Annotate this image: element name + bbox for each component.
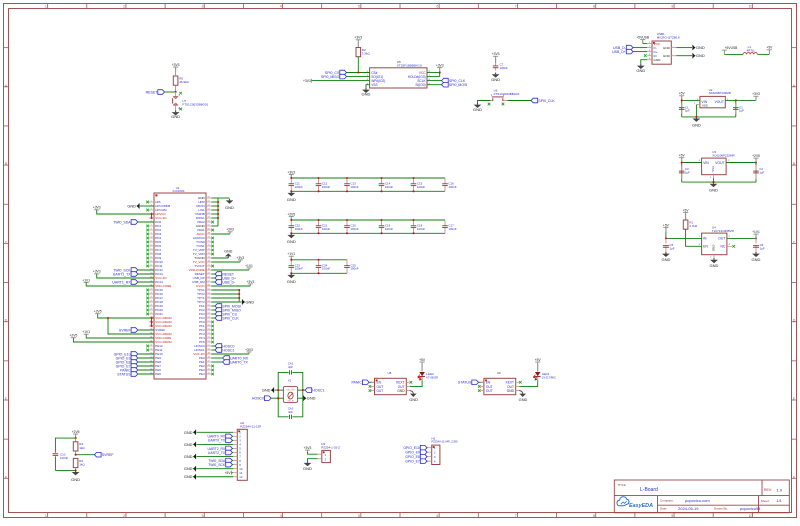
net label HOSC0 (U1) bbox=[211, 344, 234, 349]
+3V3 power (R2 pull-up) bbox=[354, 36, 362, 48]
svg-text:Drawn By:: Drawn By: bbox=[714, 507, 728, 511]
svg-text:GND: GND bbox=[287, 197, 296, 202]
svg-text:10: 10 bbox=[749, 5, 753, 9]
svg-text:28: 28 bbox=[150, 309, 152, 311]
capacitor bank C11-C16 (+3V3) bbox=[287, 170, 457, 202]
svg-text:67: 67 bbox=[208, 281, 210, 283]
svg-text:25: 25 bbox=[150, 297, 152, 299]
svg-text:SPI0_CLK: SPI0_CLK bbox=[222, 316, 239, 320]
svg-text:+3V3: +3V3 bbox=[93, 270, 101, 274]
+3V3 power (H3) bbox=[304, 446, 318, 454]
svg-text:52: 52 bbox=[208, 341, 210, 343]
svg-text:KT-0603R: KT-0603R bbox=[426, 375, 438, 379]
+2V5 power (U1 VCC-DRAM) bbox=[94, 310, 154, 334]
svg-text:1.0: 1.0 bbox=[777, 487, 783, 492]
svg-text:X1: X1 bbox=[288, 379, 292, 383]
svg-text:+1V1: +1V1 bbox=[82, 278, 90, 282]
svg-text:SVREF: SVREF bbox=[102, 453, 114, 457]
capacitor bank C22-C17 (+2V5) bbox=[287, 212, 457, 244]
svg-text:+5V: +5V bbox=[225, 471, 232, 475]
net label USB_D+ bbox=[612, 49, 647, 54]
svg-text:62: 62 bbox=[208, 301, 210, 303]
svg-text:1µF: 1µF bbox=[760, 247, 765, 251]
svg-text:3: 3 bbox=[201, 514, 203, 518]
+3V3 power (U1 HPVCC) bbox=[93, 206, 154, 218]
svg-text:2024-05-19: 2024-05-19 bbox=[678, 506, 699, 511]
wire LED to OUT bbox=[519, 377, 538, 387]
IC U5 XT25F16BB6KGU bbox=[367, 60, 431, 88]
svg-text:GND: GND bbox=[692, 122, 701, 127]
wire VSS to ground bbox=[366, 85, 370, 88]
net label SPI0_MOSI (U1) bbox=[211, 304, 241, 309]
svg-text:U8: U8 bbox=[388, 371, 392, 375]
wire + ground flag (H2 pin 7) bbox=[184, 454, 233, 459]
+5V power (LED1) bbox=[535, 358, 542, 372]
+5V power (R1) bbox=[683, 208, 690, 220]
net label HOSC1 (U1) bbox=[211, 348, 234, 353]
+5VUSB power (USB1) bbox=[636, 36, 650, 44]
svg-text:GND: GND bbox=[654, 58, 662, 62]
svg-text:+3V3: +3V3 bbox=[354, 36, 362, 40]
capacitor C3 bbox=[679, 163, 690, 183]
net label TWI0_SCK bbox=[113, 268, 154, 273]
inductor L1 bbox=[743, 45, 757, 54]
ground (C7) bbox=[491, 73, 500, 82]
ground (divider) bbox=[71, 470, 80, 482]
svg-text:81: 81 bbox=[208, 225, 210, 227]
svg-text:+1V1: +1V1 bbox=[245, 264, 253, 268]
IC U4 TLV71310DBVR bbox=[699, 225, 735, 259]
svg-text:7: 7 bbox=[515, 5, 517, 9]
svg-text:+1V1: +1V1 bbox=[752, 230, 760, 234]
net label UART1_TX bbox=[113, 272, 154, 277]
IC U3 XC6206P252MR bbox=[699, 150, 736, 179]
svg-text:GND: GND bbox=[262, 388, 271, 393]
svg-text:SVREF: SVREF bbox=[119, 328, 131, 332]
svg-text:GPIO_E9: GPIO_E9 bbox=[405, 451, 420, 455]
wire TP bus (U1) bbox=[211, 290, 241, 302]
net label TWI0_SCK (H2) bbox=[208, 462, 233, 467]
svg-text:NC: NC bbox=[720, 245, 725, 249]
svg-text:4pF: 4pF bbox=[288, 410, 293, 414]
net label SPI0_CS (U1) bbox=[211, 312, 237, 317]
resistor R5 bbox=[173, 76, 189, 92]
svg-text:79: 79 bbox=[208, 233, 210, 235]
ground (U2) bbox=[692, 117, 701, 127]
svg-text:H1: H1 bbox=[432, 436, 436, 440]
svg-text:GND: GND bbox=[712, 245, 716, 251]
capacitor bank C23-C25 (+1V1) bbox=[287, 252, 359, 284]
wire +5V to VIN bbox=[682, 99, 700, 101]
svg-text:GND: GND bbox=[225, 205, 234, 210]
svg-text:XC6206P252MR: XC6206P252MR bbox=[712, 153, 735, 157]
svg-text:GPIO_E10: GPIO_E10 bbox=[403, 446, 420, 450]
U1 left pins bbox=[146, 200, 172, 376]
net label SPI0_MOSI bbox=[427, 82, 467, 87]
svg-text:FTS1C0033BBG01: FTS1C0033BBG01 bbox=[494, 92, 520, 96]
svg-text:VSS: VSS bbox=[371, 83, 377, 87]
svg-text:48: 48 bbox=[208, 357, 210, 359]
wire +5V to VIN bbox=[682, 162, 702, 164]
title block bbox=[614, 480, 789, 513]
svg-text:IN: IN bbox=[703, 237, 707, 241]
svg-text:TWI0_SCK: TWI0_SCK bbox=[208, 463, 226, 467]
svg-text:REV:: REV: bbox=[764, 488, 772, 492]
svg-text:GND: GND bbox=[246, 300, 255, 305]
svg-text:SPI0_MOSI: SPI0_MOSI bbox=[449, 83, 468, 87]
svg-text:GND: GND bbox=[397, 389, 405, 393]
wire L1 to +5V bbox=[758, 53, 770, 55]
net label UART1_RX bbox=[112, 280, 154, 285]
svg-text:+3V3: +3V3 bbox=[492, 52, 500, 56]
svg-text:HOSC1: HOSC1 bbox=[312, 388, 324, 392]
ground flag (U1 TP bus) bbox=[242, 299, 254, 304]
svg-text:EasyEDA: EasyEDA bbox=[629, 503, 653, 509]
IC U8 LED driver bbox=[371, 371, 410, 395]
svg-text:GND: GND bbox=[709, 188, 718, 193]
connector H3 PZ254-1-02-Z-8.5 bbox=[318, 442, 341, 462]
svg-text:1: 1 bbox=[45, 514, 47, 518]
svg-text:78: 78 bbox=[208, 237, 210, 239]
svg-text:U9: U9 bbox=[497, 371, 501, 375]
svg-text:GND: GND bbox=[184, 442, 193, 447]
svg-text:+5V: +5V bbox=[419, 358, 426, 362]
svg-text:SPI0_MISO: SPI0_MISO bbox=[321, 75, 340, 79]
svg-text:+3V3: +3V3 bbox=[304, 446, 312, 450]
svg-text:51: 51 bbox=[208, 345, 210, 347]
svg-text:LED2: LED2 bbox=[426, 372, 434, 376]
crystal X1 bbox=[283, 379, 297, 403]
svg-text:OUT: OUT bbox=[486, 389, 493, 393]
svg-text:7: 7 bbox=[515, 514, 517, 518]
connector H1 PZ254V-11-04P bbox=[428, 436, 458, 464]
net label RESET (U1) bbox=[211, 272, 235, 277]
wire VOUT to +3V3 bbox=[725, 99, 756, 101]
svg-text:GND: GND bbox=[507, 389, 515, 393]
svg-text:SK6206P332MR: SK6206P332MR bbox=[709, 91, 732, 95]
svg-text:100nF: 100nF bbox=[322, 227, 330, 231]
svg-text:1µF: 1µF bbox=[670, 247, 675, 251]
svg-text:7: 7 bbox=[151, 225, 152, 227]
svg-text:100nF: 100nF bbox=[60, 456, 68, 460]
capacitor C6 bbox=[753, 238, 765, 252]
+3V3 power (reset pull-up) bbox=[172, 63, 180, 71]
svg-text:+3V3: +3V3 bbox=[303, 79, 311, 83]
svg-text:6: 6 bbox=[436, 514, 438, 518]
svg-text:PANIC: PANIC bbox=[351, 381, 362, 385]
ground up (U1 TVGND) bbox=[211, 249, 232, 258]
svg-text:VSS: VSS bbox=[711, 166, 715, 172]
svg-text:77: 77 bbox=[208, 241, 210, 243]
svg-text:PZ254V-11-04P_C289: PZ254V-11-04P_C289 bbox=[432, 440, 458, 444]
+2V5 power (U1 VCC-DRAM 2) bbox=[70, 334, 154, 342]
svg-text:UART1_RX: UART1_RX bbox=[112, 280, 131, 284]
svg-text:3: 3 bbox=[201, 5, 203, 9]
net label USB_D- bbox=[613, 45, 647, 50]
+3V3 power (C7) bbox=[492, 52, 500, 63]
+5V power (U3) bbox=[679, 154, 686, 163]
ground flag shield 2 bbox=[693, 53, 705, 58]
capacitor C1 bbox=[679, 100, 690, 117]
+1V1 power (U1 VDD-CORE right) bbox=[211, 264, 253, 270]
svg-text:+2V5: +2V5 bbox=[287, 212, 295, 216]
svg-text:+3V3: +3V3 bbox=[236, 256, 244, 260]
svg-text:76: 76 bbox=[208, 245, 210, 247]
ground flag shield 1 bbox=[693, 45, 705, 50]
svg-text:8: 8 bbox=[151, 229, 152, 231]
svg-text:100nF: 100nF bbox=[322, 267, 330, 271]
svg-text:100nF: 100nF bbox=[500, 66, 508, 70]
ground flag (crystal left) bbox=[262, 388, 284, 393]
svg-text:100nF: 100nF bbox=[385, 185, 393, 189]
svg-text:PE5: PE5 bbox=[155, 372, 161, 376]
svg-text:74: 74 bbox=[208, 253, 210, 255]
svg-text:14: 14 bbox=[150, 253, 152, 255]
wire VOUT to +2V5 bbox=[726, 162, 756, 164]
svg-text:4R7Ω: 4R7Ω bbox=[747, 48, 756, 52]
capacitor C4 bbox=[753, 163, 764, 183]
svg-text:29: 29 bbox=[150, 313, 152, 315]
svg-text:3.3kΩ: 3.3kΩ bbox=[362, 52, 371, 56]
svg-text:GND: GND bbox=[287, 239, 296, 244]
svg-text:61: 61 bbox=[208, 305, 210, 307]
svg-text:15: 15 bbox=[150, 257, 152, 259]
svg-text:GND: GND bbox=[184, 466, 193, 471]
power label +5V (H2 pin 11) bbox=[225, 471, 233, 475]
svg-text:+5V: +5V bbox=[663, 223, 670, 227]
svg-text:71: 71 bbox=[208, 265, 210, 267]
svg-text:GPIO_E8: GPIO_E8 bbox=[405, 455, 420, 459]
svg-text:GND: GND bbox=[661, 257, 670, 262]
svg-text:11: 11 bbox=[150, 241, 152, 243]
svg-text:19-217/R6C: 19-217/R6C bbox=[542, 375, 556, 379]
svg-text:85: 85 bbox=[208, 209, 210, 211]
wire to L1 bbox=[724, 53, 743, 55]
svg-text:GND: GND bbox=[710, 263, 719, 268]
svg-text:GND: GND bbox=[519, 397, 528, 402]
svg-text:+2V5: +2V5 bbox=[94, 310, 102, 314]
net label HOSC1 (crystal) bbox=[298, 388, 325, 393]
svg-text:VSS: VSS bbox=[702, 104, 708, 108]
no-connect marks bbox=[478, 385, 481, 388]
svg-text:4: 4 bbox=[280, 514, 282, 518]
net label TWI0_SDA bbox=[113, 220, 154, 225]
net label SPI0_CS bbox=[325, 70, 370, 75]
wire +5VUSB to VCC bbox=[643, 43, 648, 45]
svg-text:73: 73 bbox=[208, 257, 210, 259]
svg-text:+5V: +5V bbox=[683, 208, 690, 212]
svg-text:13: 13 bbox=[150, 249, 152, 251]
svg-text:Sheet:: Sheet: bbox=[761, 499, 770, 503]
svg-text:100nF: 100nF bbox=[350, 267, 358, 271]
+3V3 power (U2 out) bbox=[752, 92, 760, 100]
svg-text:82: 82 bbox=[208, 221, 210, 223]
no-connect NC bbox=[732, 245, 735, 248]
svg-text:1µF: 1µF bbox=[739, 109, 744, 113]
svg-text:100nF: 100nF bbox=[295, 227, 303, 231]
svg-text:PE4: PE4 bbox=[199, 372, 205, 376]
net label GPIO_E10 (H1) bbox=[403, 445, 427, 450]
connector USB1 MICRO-QTZ86.6 bbox=[647, 32, 680, 64]
svg-text:45.9kΩ: 45.9kΩ bbox=[179, 80, 189, 84]
svg-text:D: D bbox=[793, 319, 796, 323]
wire + ground flag (H2 pin 1) bbox=[184, 430, 233, 435]
svg-text:+3V3: +3V3 bbox=[752, 92, 760, 96]
svg-text:GND: GND bbox=[307, 396, 316, 401]
svg-text:9: 9 bbox=[671, 514, 673, 518]
svg-text:GND: GND bbox=[409, 397, 418, 402]
wire + ground flag (H2 pin 4) bbox=[184, 442, 233, 447]
net label UART0_RX (U1) bbox=[211, 356, 249, 361]
svg-text:UART2_TX: UART2_TX bbox=[208, 451, 226, 455]
ground (C6) bbox=[752, 252, 761, 262]
svg-text:GND: GND bbox=[696, 45, 705, 50]
+3V3 power (U1 UVCC) bbox=[211, 280, 254, 286]
net label GPIO_E8 (U1) bbox=[116, 360, 154, 365]
svg-text:GND: GND bbox=[752, 257, 761, 262]
+3V3 power (U5 VCC) bbox=[436, 63, 444, 72]
net label GPIO_E9 (H1) bbox=[405, 450, 427, 455]
wire +5V to IN bbox=[666, 232, 702, 238]
node RESET junction bbox=[175, 91, 177, 93]
net label PANIC bbox=[351, 380, 374, 385]
svg-text:LED1: LED1 bbox=[542, 372, 550, 376]
svg-text:46: 46 bbox=[208, 365, 210, 367]
net label PANIC (U1) bbox=[120, 368, 154, 373]
svg-text:UART1_TX: UART1_TX bbox=[113, 272, 131, 276]
svg-text:SPI0_CLK: SPI0_CLK bbox=[538, 99, 555, 103]
resistor R3 bbox=[73, 438, 85, 455]
svg-text:Date:: Date: bbox=[660, 507, 667, 511]
svg-text:VOUT: VOUT bbox=[715, 161, 724, 165]
svg-text:GND: GND bbox=[663, 46, 671, 50]
svg-text:GND: GND bbox=[184, 454, 193, 459]
svg-text:5: 5 bbox=[358, 514, 360, 518]
wire R2 to CS node bbox=[357, 57, 359, 73]
svg-text:STATUS: STATUS bbox=[458, 381, 472, 385]
svg-text:L-Board: L-Board bbox=[640, 487, 658, 493]
svg-text:+1V1: +1V1 bbox=[287, 252, 295, 256]
net label GPIO_E9 (U1) bbox=[116, 356, 154, 361]
svg-text:100nF: 100nF bbox=[448, 185, 456, 189]
net label SPI0_CLK (U6) bbox=[508, 98, 556, 103]
+3V3 power (U1 VCC-3O) bbox=[93, 270, 154, 278]
wire + ground (H3 pin 2) bbox=[303, 459, 317, 471]
svg-text:100nF: 100nF bbox=[417, 185, 425, 189]
+1V1 power (U4 out) bbox=[752, 230, 760, 238]
svg-text:50: 50 bbox=[208, 349, 210, 351]
+5V power (L1 out) bbox=[766, 46, 773, 55]
+3V3 power (U1 TV_VCC) bbox=[211, 256, 244, 262]
svg-text:83: 83 bbox=[208, 217, 210, 219]
svg-text:+2V5: +2V5 bbox=[752, 154, 760, 158]
svg-text:popovicu.com: popovicu.com bbox=[685, 498, 710, 503]
svg-text:9: 9 bbox=[151, 233, 152, 235]
svg-text:GND: GND bbox=[636, 68, 645, 73]
svg-text:OSC_OUT: OSC_OUT bbox=[286, 389, 294, 391]
svg-text:C: C bbox=[5, 240, 8, 244]
svg-text:58: 58 bbox=[208, 317, 210, 319]
svg-text:100nF: 100nF bbox=[385, 227, 393, 231]
svg-text:59: 59 bbox=[208, 313, 210, 315]
svg-text:UART0_TX: UART0_TX bbox=[208, 439, 226, 443]
svg-text:USB_D+: USB_D+ bbox=[612, 50, 626, 54]
svg-text:GND: GND bbox=[663, 54, 671, 58]
net label USB_D- (U1) bbox=[211, 280, 236, 285]
svg-text:45: 45 bbox=[208, 369, 210, 371]
svg-text:55: 55 bbox=[208, 329, 210, 331]
svg-text:12: 12 bbox=[150, 245, 152, 247]
svg-text:66: 66 bbox=[208, 285, 210, 287]
svg-text:10: 10 bbox=[150, 237, 152, 239]
capacitor C10 branch bbox=[53, 438, 76, 470]
svg-text:GND: GND bbox=[171, 114, 180, 119]
svg-text:4: 4 bbox=[280, 5, 282, 9]
wire + ground flag (H2 pin 10) bbox=[184, 466, 233, 471]
+1V1 power (U1 VDD-CORE 2) bbox=[82, 330, 154, 338]
svg-text:1µF: 1µF bbox=[759, 170, 764, 174]
svg-text:1: 1 bbox=[45, 5, 47, 9]
svg-text:100nF: 100nF bbox=[350, 227, 358, 231]
power label +3V3 (WP# net) bbox=[303, 79, 370, 83]
svg-text:GND: GND bbox=[71, 477, 80, 482]
net label HOSC0 (crystal) bbox=[252, 396, 284, 401]
IC U2 SK6206P332MR bbox=[694, 88, 732, 108]
svg-text:TWI0_SDA: TWI0_SDA bbox=[113, 220, 131, 224]
wire VCC/HOLD pull-up bbox=[427, 73, 440, 77]
wire OUT to +1V1 bbox=[727, 237, 756, 239]
net label SPI0_CLK bbox=[427, 78, 466, 83]
net label UART0_RX (H2) bbox=[208, 434, 233, 439]
net label GPIO_E7 (U1) bbox=[116, 364, 154, 369]
wire LED to OUT bbox=[410, 377, 422, 387]
net label SPI0_CLK (U1) bbox=[211, 316, 239, 321]
svg-text:+3V3: +3V3 bbox=[436, 63, 444, 67]
svg-text:PZ254V-11-12P: PZ254V-11-12P bbox=[240, 424, 261, 428]
capacitor C5 bbox=[663, 238, 675, 252]
svg-text:1µF: 1µF bbox=[685, 109, 690, 113]
svg-text:6: 6 bbox=[436, 5, 438, 9]
svg-text:+5V: +5V bbox=[679, 154, 686, 158]
svg-text:56: 56 bbox=[208, 325, 210, 327]
bottom bus (U3) bbox=[682, 178, 756, 182]
svg-text:8: 8 bbox=[593, 514, 595, 518]
net label GPIO_E7 (H1) bbox=[405, 459, 427, 464]
resistor R4 bbox=[73, 458, 85, 470]
svg-text:100nF: 100nF bbox=[417, 227, 425, 231]
svg-text:54: 54 bbox=[208, 333, 210, 335]
node CS junction bbox=[357, 71, 359, 73]
svg-text:OSC_IN: OSC_IN bbox=[287, 400, 294, 402]
svg-text:1: 1 bbox=[151, 201, 152, 203]
svg-text:GND: GND bbox=[473, 107, 482, 112]
switch U7 FTS1C0033BBG01 bbox=[173, 92, 209, 111]
svg-text:MICRO-QTZ86.6: MICRO-QTZ86.6 bbox=[657, 36, 680, 40]
svg-text:+3V3: +3V3 bbox=[245, 348, 253, 352]
svg-text:D: D bbox=[5, 319, 8, 323]
svg-text:GND: GND bbox=[362, 91, 371, 96]
net label TWI0_SDA (H2) bbox=[208, 458, 233, 463]
svg-text:+3V3: +3V3 bbox=[226, 228, 234, 232]
EasyEDA logo bbox=[617, 497, 629, 506]
net label STATUS bbox=[458, 380, 484, 385]
ground hook (LED driver) bbox=[409, 391, 418, 403]
svg-text:84: 84 bbox=[208, 213, 210, 215]
svg-text:60: 60 bbox=[208, 309, 210, 311]
svg-text:GPIO_E7: GPIO_E7 bbox=[405, 460, 420, 464]
net label USB_D+ (U1) bbox=[211, 276, 236, 281]
LED LED1 19-217/R6C bbox=[533, 372, 556, 380]
